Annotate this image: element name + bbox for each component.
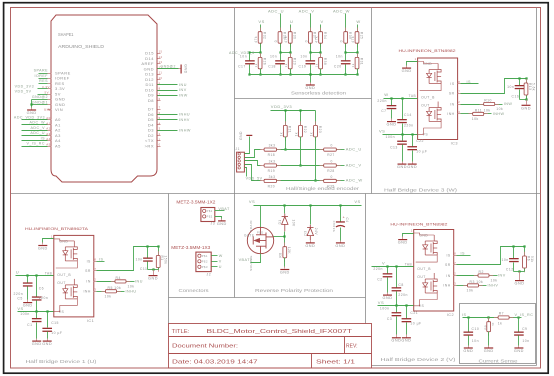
svg-text:10k: 10k xyxy=(472,117,479,121)
pin stub right xyxy=(94,261,97,263)
svg-text:0: 0 xyxy=(331,144,333,148)
svg-text:IN: IN xyxy=(446,274,450,278)
diode D3 zener 24V xyxy=(310,206,312,225)
svg-text:10 µF: 10 µF xyxy=(51,331,62,335)
wire mid bus xyxy=(346,52,358,54)
resistor R29 xyxy=(290,53,292,58)
svg-text:0: 0 xyxy=(340,40,344,42)
svg-text:BLDC_Motor_Control_Shield_IFX0: BLDC_Motor_Control_Shield_IFX007T xyxy=(207,329,353,335)
resistor R34 47k xyxy=(320,28,322,32)
svg-text:560UF: 560UF xyxy=(332,220,336,232)
svg-text:METZ-3.5MM-1X3: METZ-3.5MM-1X3 xyxy=(171,245,211,250)
pin stub right xyxy=(458,83,461,85)
pin J1-1 xyxy=(238,153,240,155)
wire RES xyxy=(39,83,48,85)
net W (J2) xyxy=(212,255,218,257)
svg-text:U: U xyxy=(16,270,19,275)
pin stub right xyxy=(458,113,461,115)
svg-text:Current Sense: Current Sense xyxy=(479,359,518,365)
wire xyxy=(345,44,347,53)
svg-text:R21: R21 xyxy=(288,126,292,133)
capacitor C13 100n xyxy=(402,135,404,141)
net VBAT2 xyxy=(251,254,261,263)
svg-text:U: U xyxy=(290,19,293,24)
svg-text:REV:: REV: xyxy=(346,344,358,350)
svg-text:10n: 10n xyxy=(507,85,514,89)
svg-text:SR: SR xyxy=(445,263,451,267)
svg-text:OUT_B: OUT_B xyxy=(421,96,435,100)
resistor R6 51k xyxy=(524,247,526,257)
wire mid bus xyxy=(311,52,321,54)
svg-text:INHV: INHV xyxy=(179,118,190,122)
ground (D3) xyxy=(310,241,312,243)
svg-text:IS: IS xyxy=(99,257,104,261)
svg-text:+: + xyxy=(343,215,346,219)
wire xyxy=(97,291,106,293)
svg-text:C17: C17 xyxy=(238,64,246,68)
svg-text:R9: R9 xyxy=(484,325,488,330)
svg-text:IC1: IC1 xyxy=(87,319,94,323)
ground (C21) xyxy=(406,335,408,338)
wire SR to RC xyxy=(461,79,527,94)
IC IC2 BTN8982 xyxy=(414,230,454,312)
resistor R28 0 xyxy=(320,165,324,167)
svg-text:0: 0 xyxy=(331,175,333,179)
net VDD_5V xyxy=(38,94,48,96)
resistor R23 1k xyxy=(315,111,317,126)
svg-text:R25: R25 xyxy=(359,32,363,39)
svg-text:1k: 1k xyxy=(351,63,355,67)
transistor (high side FET) xyxy=(423,235,438,255)
svg-text:2: 2 xyxy=(458,100,460,104)
svg-text:0: 0 xyxy=(331,160,333,164)
svg-text:10: 10 xyxy=(159,76,163,80)
svg-text:ADC_U: ADC_U xyxy=(346,146,362,151)
net INHU xyxy=(158,114,178,116)
resistor R2 10k xyxy=(474,275,478,277)
svg-text:TAB: TAB xyxy=(405,262,412,266)
svg-text:ADC_V: ADC_V xyxy=(31,126,46,130)
svg-text:GND: GND xyxy=(463,349,473,353)
svg-text:IS: IS xyxy=(87,260,91,264)
svg-text:P$1: P$1 xyxy=(207,209,213,213)
svg-text:C19: C19 xyxy=(299,64,307,68)
svg-text:VBAT2: VBAT2 xyxy=(239,258,253,262)
resistor R5 10k xyxy=(101,291,105,293)
resistor R19 3k3 xyxy=(260,165,264,167)
svg-text:IS: IS xyxy=(462,313,467,317)
svg-text:220n: 220n xyxy=(39,296,49,300)
svg-text:R26: R26 xyxy=(263,58,267,65)
svg-text:15: 15 xyxy=(159,50,163,54)
svg-text:C13: C13 xyxy=(390,146,398,150)
pin stub right xyxy=(454,255,457,257)
svg-text:>RX: >RX xyxy=(145,143,154,148)
svg-text:INH: INH xyxy=(443,284,450,288)
wire xyxy=(277,180,324,182)
wire xyxy=(277,165,324,167)
capacitor C5 220n xyxy=(27,276,29,283)
svg-text:HU-INFINEON_BTN8962TA: HU-INFINEON_BTN8962TA xyxy=(25,226,88,231)
svg-text:TAB: TAB xyxy=(45,272,52,276)
svg-text:ADC_W: ADC_W xyxy=(30,121,46,125)
svg-text:C11: C11 xyxy=(140,267,147,271)
svg-text:R13: R13 xyxy=(528,83,532,90)
svg-text:R23: R23 xyxy=(318,126,322,133)
svg-text:5V: 5V xyxy=(55,91,61,96)
svg-text:10 µF: 10 µF xyxy=(410,321,421,325)
svg-text:R31: R31 xyxy=(359,58,363,65)
svg-text:VS: VS xyxy=(354,199,360,204)
net VDD_3V3 xyxy=(38,88,48,90)
net ADC_V xyxy=(337,165,345,167)
svg-text:Sensorless detection: Sensorless detection xyxy=(291,91,346,97)
resistor R3 10k xyxy=(463,285,467,287)
connector J1 xyxy=(237,152,245,172)
svg-text:VS: VS xyxy=(17,306,23,311)
svg-text:2: 2 xyxy=(454,272,456,276)
svg-text:0: 0 xyxy=(159,143,161,147)
svg-text:D8: D8 xyxy=(148,98,154,103)
capacitor C21 10 uF xyxy=(406,306,408,319)
svg-text:P$1: P$1 xyxy=(202,254,208,258)
svg-text:IN: IN xyxy=(450,102,454,106)
svg-text:D1: D1 xyxy=(278,219,282,224)
svg-text:C21: C21 xyxy=(410,311,418,315)
svg-text:3.3V: 3.3V xyxy=(42,85,50,89)
svg-text:A5: A5 xyxy=(46,142,51,146)
pin stub right xyxy=(94,291,97,293)
svg-text:Reverse Polarity Protection: Reverse Polarity Protection xyxy=(255,288,333,294)
pin stub right xyxy=(458,104,461,106)
ground (C4) xyxy=(340,228,342,241)
pin J1-5 xyxy=(238,167,240,169)
net ADC_U xyxy=(337,149,345,151)
transistor (low side FET) xyxy=(423,273,438,293)
capacitor C16 10n xyxy=(519,79,521,86)
svg-text:TAB: TAB xyxy=(409,94,416,98)
svg-text:Half Bridge Device 3 (W): Half Bridge Device 3 (W) xyxy=(384,188,458,194)
resistor R21 1k xyxy=(285,111,287,126)
resistor R10 10k xyxy=(480,104,484,106)
svg-text:C12: C12 xyxy=(506,268,514,272)
wire xyxy=(320,69,322,75)
svg-text:A4: A4 xyxy=(46,137,51,141)
svg-text:1k: 1k xyxy=(254,63,258,67)
svg-text:INU: INU xyxy=(135,280,143,284)
wire xyxy=(148,269,159,271)
svg-text:13: 13 xyxy=(159,60,163,64)
svg-text:8: 8 xyxy=(159,87,161,91)
svg-text:R34: R34 xyxy=(323,32,327,39)
svg-text:D10: D10 xyxy=(145,87,154,92)
svg-text:C9: C9 xyxy=(522,327,527,331)
svg-text:220n: 220n xyxy=(377,99,387,103)
capacitor C22 10 uF xyxy=(412,135,414,147)
ground (C22) xyxy=(412,162,414,164)
svg-text:7: 7 xyxy=(94,267,96,271)
svg-text:GND@2: GND@2 xyxy=(32,95,48,99)
svg-text:VBAT: VBAT xyxy=(218,207,230,211)
resistor R36 0 xyxy=(280,28,282,32)
svg-text:V: V xyxy=(219,260,222,264)
wire xyxy=(357,69,359,75)
svg-text:OUT: OUT xyxy=(421,104,430,108)
wire xyxy=(277,149,324,151)
svg-text:1: 1 xyxy=(51,235,53,239)
svg-text:C8: C8 xyxy=(398,283,403,287)
svg-text:GND: GND xyxy=(514,349,524,353)
svg-text:GND: GND xyxy=(32,342,42,346)
pin stub right xyxy=(454,275,457,277)
pin stub right xyxy=(454,264,457,266)
svg-text:C22: C22 xyxy=(416,139,424,143)
wire xyxy=(357,44,359,53)
svg-text:C15: C15 xyxy=(51,321,59,325)
wire J1-3 to row2 xyxy=(245,161,262,166)
net VDD_5V xyxy=(245,168,247,177)
svg-text:100n: 100n xyxy=(380,306,390,310)
pin stub right xyxy=(458,93,461,95)
svg-text:W: W xyxy=(219,254,223,258)
svg-text:3k3: 3k3 xyxy=(269,175,276,179)
wire xyxy=(310,44,312,53)
svg-text:VS: VS xyxy=(258,19,264,24)
ground (C2) xyxy=(387,293,389,295)
svg-text:0: 0 xyxy=(304,40,308,42)
svg-text:R18: R18 xyxy=(268,153,276,157)
wire xyxy=(300,137,302,166)
wire IOREF xyxy=(39,78,48,80)
svg-text:INV: INV xyxy=(498,274,506,278)
svg-text:3k3: 3k3 xyxy=(269,160,276,164)
svg-text:220n: 220n xyxy=(373,267,383,271)
svg-text:DRAIN: DRAIN xyxy=(249,220,253,232)
svg-text:C4: C4 xyxy=(345,218,349,223)
capacitor C12 10n xyxy=(513,247,515,259)
svg-text:7: 7 xyxy=(458,90,460,94)
net IS xyxy=(97,261,105,263)
resistor R22 1k xyxy=(300,111,302,126)
svg-text:IOREF: IOREF xyxy=(35,74,49,78)
svg-text:GND: GND xyxy=(55,97,65,102)
svg-text:GND: GND xyxy=(391,339,401,343)
svg-text:GND: GND xyxy=(239,131,243,140)
svg-text:GND: GND xyxy=(280,271,290,275)
svg-text:10n: 10n xyxy=(502,258,509,262)
IC IC1 BTN8982 xyxy=(54,235,94,317)
svg-text:8: 8 xyxy=(458,80,460,84)
ground (IC gnd pin) xyxy=(43,239,54,243)
svg-text:ADC_VDD_3V3: ADC_VDD_3V3 xyxy=(14,115,45,119)
svg-text:VS: VS xyxy=(379,129,385,134)
resistor R8 12k xyxy=(284,243,286,247)
wire xyxy=(320,44,322,53)
svg-text:INW: INW xyxy=(179,94,188,98)
svg-text:R8: R8 xyxy=(278,253,282,258)
wire xyxy=(285,137,287,150)
svg-text:7: 7 xyxy=(454,261,456,265)
svg-text:P$2: P$2 xyxy=(202,260,208,264)
pin stub right xyxy=(454,285,457,287)
svg-text:R10: R10 xyxy=(484,99,492,103)
svg-text:INHU: INHU xyxy=(126,290,137,294)
svg-text:A1: A1 xyxy=(46,121,51,125)
wire gate xyxy=(274,236,285,238)
wire xyxy=(290,69,292,75)
pin J2-1 xyxy=(198,254,201,257)
svg-text:VIN: VIN xyxy=(55,107,63,112)
svg-text:47k: 47k xyxy=(351,36,355,43)
svg-text:R28: R28 xyxy=(327,169,335,173)
svg-text:SHAPE1: SHAPE1 xyxy=(58,32,74,37)
svg-text:GND: GND xyxy=(184,64,188,74)
net INW xyxy=(158,95,178,97)
svg-text:8: 8 xyxy=(454,252,456,256)
resistor R4 10k xyxy=(111,281,115,283)
svg-text:U: U xyxy=(219,265,222,269)
svg-text:10 µF: 10 µF xyxy=(416,149,427,153)
svg-text:OUT_B: OUT_B xyxy=(57,273,71,277)
svg-text:1k: 1k xyxy=(295,132,299,136)
ground (J1) xyxy=(245,137,250,154)
net V (J2) xyxy=(212,261,218,263)
svg-text:V: V xyxy=(321,19,324,24)
svg-text:1k: 1k xyxy=(498,322,503,326)
pin J1-4 xyxy=(238,163,240,165)
pin stub right xyxy=(94,270,97,272)
svg-text:INH: INH xyxy=(447,112,454,116)
svg-text:10n: 10n xyxy=(300,54,307,58)
svg-text:GND: GND xyxy=(387,123,397,127)
svg-text:VIN: VIN xyxy=(44,108,51,112)
resistor R30 47k xyxy=(290,28,292,32)
svg-text:R5 10k: R5 10k xyxy=(108,286,122,290)
wire SPARE xyxy=(39,73,48,75)
svg-text:VDD_5V: VDD_5V xyxy=(15,90,32,94)
svg-text:GND: GND xyxy=(407,165,417,169)
svg-text:R38: R38 xyxy=(323,58,327,65)
svg-text:INHW: INHW xyxy=(179,128,191,132)
ground (IS RC) xyxy=(153,270,155,276)
capacitor C7 220n xyxy=(391,99,393,106)
capacitor C15 10 uF xyxy=(47,312,49,328)
svg-text:D5: D5 xyxy=(148,117,154,122)
svg-text:P$3: P$3 xyxy=(202,265,208,269)
svg-text:ADC_U: ADC_U xyxy=(268,9,284,14)
svg-text:C7: C7 xyxy=(381,109,386,113)
resistor R37 0 xyxy=(310,28,312,32)
pin stub right xyxy=(94,281,97,283)
wire xyxy=(461,113,473,115)
resistor R11 10k xyxy=(469,113,473,115)
wire xyxy=(520,99,527,101)
svg-text:GND: GND xyxy=(398,241,408,245)
svg-text:GND: GND xyxy=(59,239,68,243)
svg-text:R7: R7 xyxy=(499,311,504,315)
svg-text:10n: 10n xyxy=(472,339,479,343)
svg-text:220n: 220n xyxy=(404,123,414,127)
svg-text:HU-INFINEON_BTN8982: HU-INFINEON_BTN8982 xyxy=(399,48,457,53)
svg-text:J3: J3 xyxy=(211,221,216,225)
wire xyxy=(315,137,317,181)
svg-text:C18: C18 xyxy=(268,64,276,68)
svg-text:VDD_5V: VDD_5V xyxy=(246,176,263,180)
svg-text:R29: R29 xyxy=(293,58,297,65)
svg-text:1: 1 xyxy=(159,137,161,141)
svg-text:RES: RES xyxy=(39,79,48,83)
svg-text:12K: 12K xyxy=(287,247,291,255)
capacitor C10 10n xyxy=(468,318,470,332)
wire xyxy=(260,44,262,53)
svg-text:GND: GND xyxy=(305,86,315,90)
svg-text:ADC_W: ADC_W xyxy=(346,178,363,183)
net IS xyxy=(457,255,471,257)
capacitor C14 220n xyxy=(402,99,404,120)
svg-text:1k: 1k xyxy=(315,63,319,67)
svg-text:INHU: INHU xyxy=(179,113,190,117)
net GND@2 xyxy=(32,99,48,101)
transistor (high side FET) xyxy=(427,64,442,84)
svg-text:0: 0 xyxy=(274,40,278,42)
wire xyxy=(457,275,479,277)
svg-text:11: 11 xyxy=(159,71,163,75)
resistor R13 5.6k xyxy=(526,79,528,84)
ground (C10) xyxy=(468,336,470,346)
svg-text:10n: 10n xyxy=(136,258,143,262)
svg-text:1k: 1k xyxy=(491,323,495,327)
resistor R26 xyxy=(260,53,262,58)
svg-text:SPARE: SPARE xyxy=(34,69,49,73)
svg-text:10k: 10k xyxy=(105,295,112,299)
svg-text:51k: 51k xyxy=(530,256,534,263)
wire xyxy=(461,104,484,106)
wire xyxy=(280,44,282,53)
svg-text:TITLE:: TITLE: xyxy=(172,329,190,335)
svg-text:GND: GND xyxy=(397,165,407,169)
svg-text:RES: RES xyxy=(55,81,65,86)
svg-text:A2: A2 xyxy=(46,127,51,131)
resistor R20 3k3 xyxy=(260,180,264,182)
svg-text:IS: IS xyxy=(450,82,454,86)
svg-text:24V: 24V xyxy=(314,228,318,236)
pin J1-2 xyxy=(238,156,240,158)
svg-text:SPARE: SPARE xyxy=(55,70,71,75)
resistor R25 47k xyxy=(357,28,359,32)
capacitor C11 10n xyxy=(147,247,149,258)
svg-text:ADC_VDD_3: ADC_VDD_3 xyxy=(229,51,255,55)
wire xyxy=(290,44,292,53)
wire J1-4 to row3 xyxy=(245,165,262,181)
resistor R7 1k xyxy=(494,317,498,319)
ground (C9) xyxy=(518,336,520,346)
wire SR to RC xyxy=(97,247,159,271)
ground (C5) xyxy=(27,300,29,303)
svg-text:10k: 10k xyxy=(467,289,474,293)
svg-text:Sheet: 1/1: Sheet: 1/1 xyxy=(316,360,355,366)
svg-text:INU: INU xyxy=(179,83,187,87)
pin J2-3 xyxy=(198,265,201,268)
svg-text:R20: R20 xyxy=(268,184,276,188)
svg-text:10n: 10n xyxy=(336,54,343,58)
svg-text:C5: C5 xyxy=(17,296,22,300)
svg-text:10V: 10V xyxy=(291,220,295,228)
wire bottom bus xyxy=(250,74,358,76)
net INU xyxy=(158,84,178,86)
net U (J2) xyxy=(212,266,218,268)
svg-text:Connectors: Connectors xyxy=(179,288,210,294)
net GND@1 xyxy=(32,104,48,106)
